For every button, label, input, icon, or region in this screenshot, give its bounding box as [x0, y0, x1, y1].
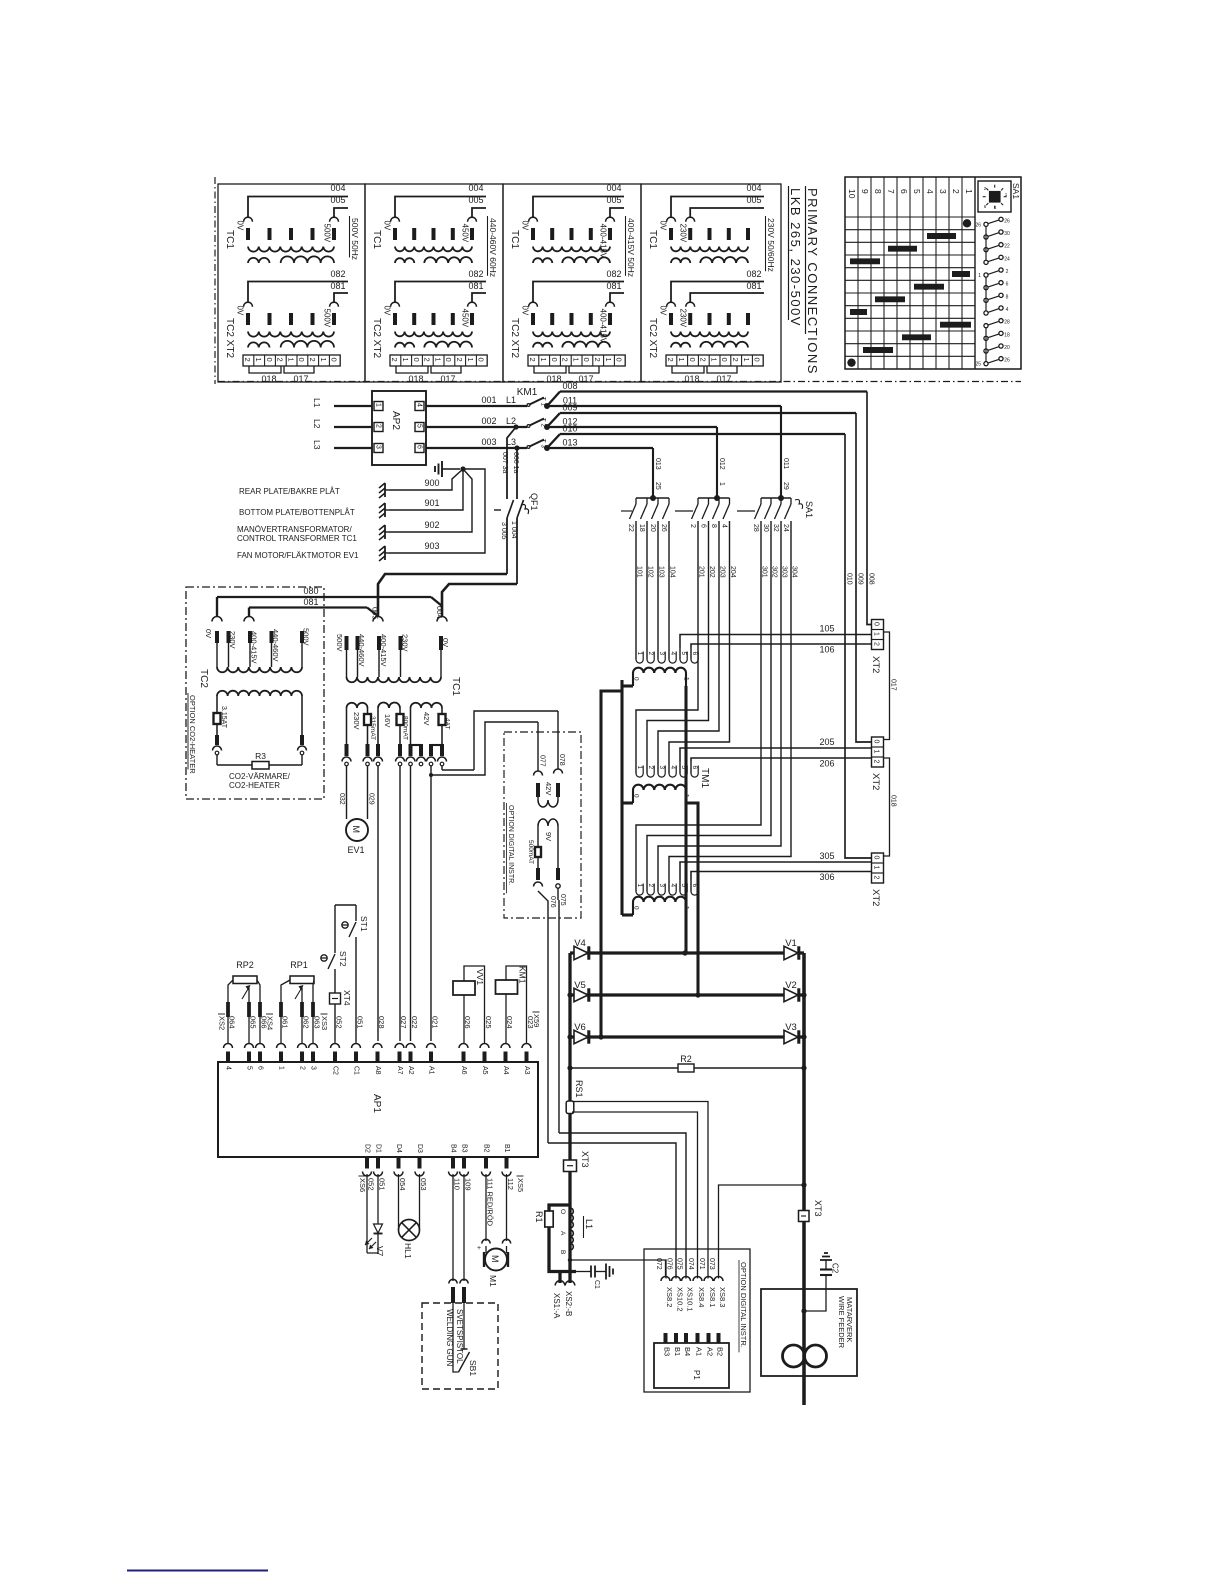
svg-text:SA1: SA1 — [804, 501, 814, 518]
svg-text:C2: C2 — [332, 1066, 339, 1075]
svg-text:1: 1 — [604, 358, 613, 362]
svg-text:28: 28 — [1004, 320, 1010, 326]
svg-text:WELDING GUN: WELDING GUN — [445, 1309, 454, 1367]
svg-text:XT3: XT3 — [813, 1200, 823, 1217]
svg-text:051: 051 — [378, 1178, 387, 1191]
svg-text:500V: 500V — [302, 628, 311, 646]
svg-text:V5: V5 — [574, 980, 586, 991]
svg-text:1: 1 — [964, 189, 974, 194]
svg-text:XT2: XT2 — [870, 656, 881, 673]
svg-text:065: 065 — [249, 1016, 258, 1029]
svg-text:0: 0 — [330, 358, 339, 362]
svg-text:LKB 265, 230-500V: LKB 265, 230-500V — [788, 188, 803, 327]
svg-text:3 005: 3 005 — [500, 522, 507, 540]
svg-text:32: 32 — [772, 524, 779, 532]
svg-text:XT2: XT2 — [870, 773, 881, 790]
svg-text:28: 28 — [752, 524, 759, 532]
svg-text:V7: V7 — [375, 1246, 385, 1257]
svg-text:D3: D3 — [416, 1144, 423, 1153]
svg-text:071: 071 — [698, 1258, 705, 1270]
svg-text:P1: P1 — [692, 1370, 701, 1380]
svg-text:1: 1 — [636, 652, 643, 656]
svg-text:0: 0 — [872, 622, 879, 626]
svg-text:2: 2 — [455, 358, 464, 362]
svg-text:025: 025 — [484, 1016, 493, 1029]
svg-text:26: 26 — [660, 524, 667, 532]
svg-text:4: 4 — [1006, 307, 1009, 313]
svg-text:+: + — [477, 1245, 481, 1252]
svg-text:007 3a: 007 3a — [501, 452, 508, 474]
svg-text:A8: A8 — [374, 1066, 381, 1075]
svg-text:005: 005 — [746, 195, 761, 205]
svg-text:017: 017 — [578, 374, 593, 384]
svg-text:1: 1 — [978, 273, 981, 279]
svg-text:C1: C1 — [353, 1066, 360, 1075]
svg-text:0: 0 — [615, 358, 624, 362]
svg-text:L1: L1 — [506, 395, 516, 405]
svg-text:3.15AT: 3.15AT — [220, 706, 227, 729]
svg-text:400-415V: 400-415V — [599, 309, 608, 344]
svg-text:0: 0 — [720, 358, 729, 362]
svg-text:1: 1 — [539, 358, 548, 362]
svg-text:A1: A1 — [428, 1066, 435, 1075]
svg-text:B3: B3 — [461, 1144, 468, 1153]
svg-text:XT4: XT4 — [342, 990, 352, 1006]
svg-text:0V: 0V — [204, 629, 213, 638]
svg-text:A1: A1 — [695, 1347, 704, 1356]
svg-text:2: 2 — [699, 358, 708, 362]
svg-text:TC2: TC2 — [198, 669, 209, 688]
svg-text:9V: 9V — [544, 832, 553, 841]
svg-text:400-415V: 400-415V — [250, 631, 259, 664]
svg-text:315mAT: 315mAT — [369, 716, 376, 740]
svg-text:MANÖVERTRANSFORMATOR/: MANÖVERTRANSFORMATOR/ — [237, 525, 352, 534]
svg-text:L2: L2 — [312, 419, 322, 429]
svg-text:TC1: TC1 — [509, 230, 520, 249]
svg-text:8: 8 — [710, 524, 717, 528]
svg-text:30: 30 — [1004, 231, 1010, 237]
svg-text:XS10.1: XS10.1 — [686, 1287, 695, 1312]
svg-text:TC1: TC1 — [224, 230, 235, 249]
svg-text:XS1:-A: XS1:-A — [552, 1293, 561, 1319]
svg-text:B4: B4 — [683, 1347, 692, 1356]
svg-text:4: 4 — [416, 403, 423, 407]
svg-text:022: 022 — [410, 1016, 419, 1029]
svg-text:111 RED/RÖD: 111 RED/RÖD — [486, 1178, 495, 1227]
svg-text:1: 1 — [683, 677, 690, 681]
svg-text:1: 1 — [466, 358, 475, 362]
svg-text:B1: B1 — [673, 1347, 682, 1356]
svg-text:C2: C2 — [831, 1263, 840, 1274]
svg-text:1: 1 — [709, 358, 718, 362]
svg-text:0: 0 — [550, 358, 559, 362]
svg-text:0: 0 — [633, 794, 640, 798]
svg-text:V3: V3 — [785, 1022, 797, 1033]
svg-text:205: 205 — [819, 737, 834, 747]
svg-text:REAR PLATE/BAKRE PLÅT: REAR PLATE/BAKRE PLÅT — [239, 487, 340, 496]
svg-text:L1: L1 — [312, 398, 322, 408]
svg-text:CO2-HEATER: CO2-HEATER — [229, 781, 280, 790]
svg-text:42V: 42V — [422, 712, 431, 725]
svg-text:010: 010 — [562, 424, 577, 434]
svg-text:004: 004 — [746, 183, 761, 193]
svg-text:106: 106 — [819, 645, 834, 655]
svg-text:5: 5 — [912, 189, 922, 194]
svg-text:009: 009 — [857, 573, 864, 585]
svg-text:XS5: XS5 — [516, 1178, 525, 1192]
svg-text:005: 005 — [468, 195, 483, 205]
svg-text:902: 902 — [424, 520, 439, 530]
svg-text:2: 2 — [423, 358, 432, 362]
svg-text:9: 9 — [860, 189, 870, 194]
svg-text:011: 011 — [782, 458, 789, 469]
svg-text:018: 018 — [408, 374, 423, 384]
svg-text:B: B — [559, 1250, 566, 1254]
svg-text:061: 061 — [281, 1016, 290, 1029]
svg-text:1: 1 — [278, 1066, 285, 1070]
svg-text:230V: 230V — [352, 712, 361, 730]
svg-text:112: 112 — [506, 1178, 515, 1190]
svg-text:24: 24 — [1004, 256, 1010, 262]
svg-text:CO2-VÄRMARE/: CO2-VÄRMARE/ — [229, 772, 291, 781]
svg-text:A2: A2 — [706, 1347, 715, 1356]
svg-text:0V: 0V — [383, 221, 392, 231]
svg-text:SVETSPISTOL: SVETSPISTOL — [455, 1309, 464, 1364]
svg-text:AP2: AP2 — [390, 411, 401, 430]
svg-text:109: 109 — [464, 1178, 473, 1191]
svg-text:X59: X59 — [532, 1014, 541, 1027]
svg-text:42V: 42V — [544, 782, 553, 795]
svg-text:450V: 450V — [461, 224, 470, 243]
svg-text:XS6: XS6 — [358, 1178, 367, 1192]
svg-text:004: 004 — [606, 183, 621, 193]
svg-text:0V: 0V — [441, 638, 450, 647]
svg-text:24: 24 — [782, 524, 789, 532]
svg-text:076: 076 — [666, 1258, 673, 1270]
svg-text:RS1: RS1 — [574, 1080, 584, 1098]
svg-text:A: A — [559, 1231, 566, 1236]
svg-text:25: 25 — [975, 362, 981, 368]
svg-text:0: 0 — [872, 856, 879, 860]
svg-text:082: 082 — [746, 269, 761, 279]
svg-text:0V: 0V — [383, 306, 392, 316]
svg-text:0V: 0V — [236, 306, 245, 316]
svg-text:029: 029 — [368, 793, 375, 805]
svg-text:440-460V: 440-460V — [357, 634, 366, 667]
svg-text:C1: C1 — [593, 1280, 600, 1289]
svg-text:AP1: AP1 — [371, 1094, 382, 1113]
svg-text:450V: 450V — [461, 309, 470, 328]
svg-text:005: 005 — [606, 195, 621, 205]
svg-text:RP2: RP2 — [236, 960, 254, 970]
svg-text:017: 017 — [293, 374, 308, 384]
svg-text:105: 105 — [819, 624, 834, 634]
svg-text:0: 0 — [633, 906, 640, 910]
svg-text:RP1: RP1 — [290, 960, 308, 970]
svg-text:2: 2 — [528, 358, 537, 362]
svg-text:004: 004 — [330, 183, 345, 193]
svg-text:1: 1 — [872, 866, 879, 870]
svg-text:2: 2 — [276, 358, 285, 362]
svg-text:500V: 500V — [335, 634, 344, 652]
svg-text:230V: 230V — [679, 224, 688, 243]
svg-text:073: 073 — [708, 1258, 715, 1270]
svg-text:082: 082 — [606, 269, 621, 279]
svg-text:1: 1 — [742, 358, 751, 362]
svg-text:4AT: 4AT — [444, 718, 451, 729]
svg-text:1: 1 — [433, 358, 442, 362]
svg-text:6: 6 — [257, 1066, 264, 1070]
svg-text:B1: B1 — [503, 1144, 510, 1153]
svg-text:028: 028 — [377, 1016, 386, 1029]
svg-text:1: 1 — [872, 632, 879, 636]
svg-text:002: 002 — [481, 416, 496, 426]
svg-text:230V: 230V — [401, 634, 410, 652]
svg-text:4: 4 — [669, 766, 676, 770]
svg-text:003: 003 — [481, 437, 496, 447]
svg-text:009: 009 — [562, 403, 577, 413]
svg-text:005: 005 — [330, 195, 345, 205]
svg-text:500V: 500V — [323, 224, 332, 243]
svg-text:B2: B2 — [716, 1347, 725, 1356]
svg-text:082: 082 — [468, 269, 483, 279]
svg-text:A7: A7 — [396, 1066, 403, 1075]
svg-text:2: 2 — [375, 424, 382, 428]
svg-text:FAN MOTOR/FLÄKTMOTOR EV1: FAN MOTOR/FLÄKTMOTOR EV1 — [237, 551, 359, 560]
svg-text:R3: R3 — [255, 751, 266, 761]
svg-text:006 1a: 006 1a — [512, 452, 519, 474]
svg-text:0V: 0V — [236, 221, 245, 231]
svg-text:900: 900 — [424, 478, 439, 488]
svg-text:1: 1 — [677, 358, 686, 362]
svg-text:TC2 XT2: TC2 XT2 — [509, 318, 520, 358]
svg-text:1: 1 — [254, 358, 263, 362]
svg-text:OPTION DIGITAL INSTR.: OPTION DIGITAL INSTR. — [739, 1262, 748, 1348]
svg-text:0: 0 — [444, 358, 453, 362]
svg-text:5: 5 — [680, 652, 687, 656]
svg-text:OPTION CO2-HEATER: OPTION CO2-HEATER — [188, 695, 197, 774]
svg-text:XS2:-B: XS2:-B — [564, 1291, 573, 1316]
svg-text:0: 0 — [412, 358, 421, 362]
svg-text:021: 021 — [431, 1016, 440, 1029]
svg-text:26: 26 — [975, 222, 981, 228]
svg-text:306: 306 — [819, 872, 834, 882]
svg-text:25: 25 — [654, 482, 661, 490]
svg-text:051: 051 — [356, 1016, 365, 1029]
svg-text:054: 054 — [398, 1178, 407, 1191]
svg-text:230V: 230V — [679, 309, 688, 328]
svg-text:6: 6 — [899, 189, 909, 194]
svg-text:008: 008 — [562, 381, 577, 391]
svg-text:001: 001 — [481, 395, 496, 405]
svg-text:004: 004 — [468, 183, 483, 193]
svg-text:0V: 0V — [659, 221, 668, 231]
svg-text:7: 7 — [886, 189, 896, 194]
svg-text:2: 2 — [951, 189, 961, 194]
svg-text:053: 053 — [419, 1178, 428, 1191]
svg-text:0: 0 — [582, 358, 591, 362]
svg-text:027: 027 — [399, 1016, 408, 1029]
svg-text:6: 6 — [416, 445, 423, 449]
svg-text:20: 20 — [1004, 345, 1010, 351]
svg-text:T: T — [540, 397, 546, 401]
svg-text:081: 081 — [303, 597, 318, 607]
svg-text:075: 075 — [676, 1258, 683, 1270]
svg-text:081: 081 — [468, 281, 483, 291]
svg-text:2: 2 — [647, 652, 654, 656]
svg-text:XS8.4: XS8.4 — [697, 1287, 706, 1307]
svg-text:L1: L1 — [584, 1219, 594, 1229]
svg-text:4: 4 — [225, 1066, 232, 1070]
svg-text:081: 081 — [606, 281, 621, 291]
svg-text:081: 081 — [746, 281, 761, 291]
svg-text:XS2: XS2 — [218, 1016, 227, 1030]
svg-text:D4: D4 — [395, 1144, 402, 1153]
svg-text:400-415V: 400-415V — [599, 224, 608, 259]
svg-text:2: 2 — [390, 358, 399, 362]
svg-text:5: 5 — [416, 424, 423, 428]
svg-text:XS4: XS4 — [266, 1016, 275, 1030]
svg-text:XS8.1: XS8.1 — [708, 1287, 717, 1307]
svg-text:V1: V1 — [785, 938, 797, 949]
svg-text:0: 0 — [265, 358, 274, 362]
svg-text:3: 3 — [658, 766, 665, 770]
svg-text:077: 077 — [539, 755, 546, 767]
svg-text:500mAT: 500mAT — [527, 840, 534, 864]
svg-text:2: 2 — [872, 876, 879, 880]
svg-text:3: 3 — [658, 652, 665, 656]
svg-text:R1: R1 — [534, 1211, 544, 1223]
svg-text:M1: M1 — [488, 1275, 498, 1287]
svg-text:TC1: TC1 — [450, 677, 461, 696]
svg-text:2: 2 — [593, 358, 602, 362]
svg-text:22: 22 — [627, 524, 634, 532]
svg-text:4: 4 — [669, 884, 676, 888]
svg-text:082: 082 — [330, 269, 345, 279]
svg-text:110: 110 — [453, 1178, 462, 1190]
svg-text:010: 010 — [846, 573, 853, 585]
svg-text:A2: A2 — [407, 1066, 414, 1075]
svg-text:018: 018 — [546, 374, 561, 384]
svg-text:8: 8 — [1006, 294, 1009, 300]
svg-text:0: 0 — [297, 358, 306, 362]
svg-text:V6: V6 — [574, 1022, 586, 1033]
svg-text:XS8.2: XS8.2 — [665, 1287, 674, 1307]
svg-text:1: 1 — [319, 358, 328, 362]
svg-text:L2: L2 — [506, 416, 516, 426]
svg-text:B4: B4 — [450, 1144, 457, 1153]
svg-text:2: 2 — [731, 358, 740, 362]
svg-text:018: 018 — [684, 374, 699, 384]
svg-text:500V: 500V — [323, 309, 332, 328]
svg-text:1: 1 — [401, 358, 410, 362]
svg-text:081: 081 — [330, 281, 345, 291]
svg-text:XS10.2: XS10.2 — [676, 1287, 685, 1312]
svg-text:0V: 0V — [521, 221, 530, 231]
svg-text:012: 012 — [718, 458, 725, 470]
svg-text:017: 017 — [440, 374, 455, 384]
svg-text:2: 2 — [647, 884, 654, 888]
svg-text:018: 018 — [890, 795, 897, 807]
svg-text:1: 1 — [375, 403, 382, 407]
svg-text:903: 903 — [424, 541, 439, 551]
svg-text:ST2: ST2 — [338, 951, 348, 967]
svg-text:305: 305 — [819, 851, 834, 861]
svg-text:0: 0 — [477, 358, 486, 362]
svg-text:206: 206 — [819, 759, 834, 769]
svg-text:8: 8 — [873, 189, 883, 194]
svg-text:1: 1 — [872, 750, 879, 754]
svg-text:20: 20 — [649, 524, 656, 532]
svg-text:T: T — [540, 439, 546, 443]
svg-text:TC1: TC1 — [371, 230, 382, 249]
svg-text:KM1: KM1 — [517, 387, 538, 398]
svg-text:074: 074 — [687, 1258, 694, 1270]
svg-text:3: 3 — [375, 445, 382, 449]
svg-text:064: 064 — [228, 1016, 237, 1029]
svg-text:6: 6 — [691, 766, 698, 770]
svg-text:400-415V: 400-415V — [379, 634, 388, 667]
svg-text:26: 26 — [1004, 218, 1010, 224]
svg-text:072: 072 — [655, 1258, 662, 1270]
svg-text:2: 2 — [1006, 269, 1009, 275]
svg-text:076: 076 — [549, 896, 556, 908]
svg-text:1: 1 — [636, 884, 643, 888]
svg-text:062: 062 — [302, 1016, 311, 1029]
svg-text:017: 017 — [890, 679, 897, 691]
svg-text:PRIMARY CONNECTIONS: PRIMARY CONNECTIONS — [805, 188, 820, 375]
svg-text:2: 2 — [666, 358, 675, 362]
svg-text:0V: 0V — [659, 306, 668, 316]
svg-text:052: 052 — [335, 1016, 344, 1029]
svg-text:3: 3 — [938, 189, 948, 194]
svg-text:QF1: QF1 — [529, 493, 539, 511]
svg-text:017: 017 — [716, 374, 731, 384]
svg-text:WIRE FEEDER: WIRE FEEDER — [837, 1296, 846, 1349]
svg-text:230V 50/60Hz: 230V 50/60Hz — [766, 218, 776, 272]
svg-text:6: 6 — [700, 524, 707, 528]
svg-text:0: 0 — [633, 677, 640, 681]
svg-text:1: 1 — [286, 358, 295, 362]
svg-text:2: 2 — [308, 358, 317, 362]
svg-text:0: 0 — [872, 740, 879, 744]
svg-text:XS8.3: XS8.3 — [718, 1287, 727, 1307]
svg-text:4: 4 — [669, 652, 676, 656]
svg-text:1: 1 — [636, 766, 643, 770]
svg-text:D2: D2 — [364, 1144, 371, 1153]
svg-text:2: 2 — [689, 524, 696, 528]
svg-text:D1: D1 — [375, 1144, 382, 1153]
svg-text:10: 10 — [847, 189, 857, 199]
svg-text:2: 2 — [872, 642, 879, 646]
svg-text:6: 6 — [691, 652, 698, 656]
svg-text:008: 008 — [868, 573, 875, 585]
svg-text:A6: A6 — [460, 1066, 467, 1075]
svg-text:2: 2 — [243, 358, 252, 362]
svg-text:4: 4 — [925, 189, 935, 194]
svg-text:1 004: 1 004 — [510, 521, 517, 539]
svg-text:2: 2 — [872, 760, 879, 764]
svg-text:078: 078 — [558, 754, 565, 766]
svg-text:2: 2 — [299, 1066, 306, 1070]
svg-text:KM1: KM1 — [518, 966, 528, 984]
svg-text:EV1: EV1 — [347, 845, 364, 855]
svg-text:440-460V: 440-460V — [271, 629, 280, 662]
svg-text:2: 2 — [647, 766, 654, 770]
svg-text:18: 18 — [1004, 332, 1010, 338]
svg-text:R2: R2 — [680, 1054, 692, 1064]
svg-text:075: 075 — [559, 894, 566, 906]
